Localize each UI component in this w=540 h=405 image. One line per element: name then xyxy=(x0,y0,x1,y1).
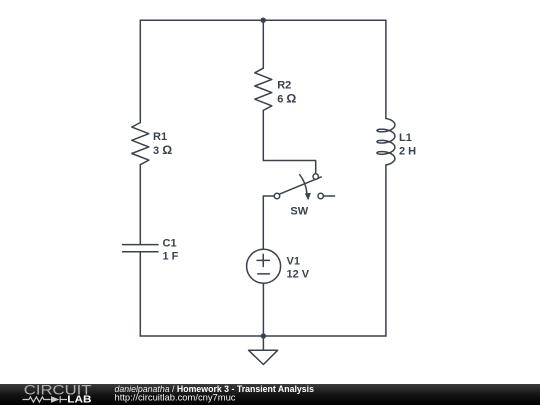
svg-text:12 V: 12 V xyxy=(287,269,310,281)
wire top-left xyxy=(140,19,263,21)
resistor R1 xyxy=(132,123,149,165)
resistor R2 xyxy=(255,68,272,110)
svg-text:LAB: LAB xyxy=(67,395,91,405)
svg-text:R1: R1 xyxy=(153,131,167,143)
svg-text:3 Ω: 3 Ω xyxy=(153,143,172,157)
wire switch to V1 xyxy=(263,196,274,249)
wire V1 to bottom xyxy=(262,283,264,336)
svg-text:R2: R2 xyxy=(277,80,291,92)
wire left upper xyxy=(139,20,141,122)
svg-text:6 Ω: 6 Ω xyxy=(277,91,296,105)
svg-text:1 F: 1 F xyxy=(163,251,179,263)
wire right upper xyxy=(385,20,387,118)
CircuitLab logo diode triangle xyxy=(51,396,60,403)
inductor L1 xyxy=(377,118,395,165)
svg-text:C1: C1 xyxy=(163,237,177,249)
svg-text:L1: L1 xyxy=(399,132,412,144)
ground xyxy=(249,336,278,365)
wire bottom-right xyxy=(263,335,386,337)
wire left middle xyxy=(139,165,141,245)
svg-text:http://circuitlab.com/cny7muc: http://circuitlab.com/cny7muc xyxy=(115,393,236,403)
voltage source V1 xyxy=(247,249,281,283)
switch SW xyxy=(274,174,334,201)
wire top-right xyxy=(263,19,386,21)
junction top xyxy=(261,18,266,23)
wire bottom-left xyxy=(140,335,263,337)
junction bottom xyxy=(261,333,266,338)
capacitor C1 xyxy=(123,245,158,252)
svg-text:2 H: 2 H xyxy=(399,146,416,158)
wire right lower xyxy=(385,165,387,336)
svg-text:V1: V1 xyxy=(287,256,300,268)
svg-text:SW: SW xyxy=(290,206,308,218)
wire center top xyxy=(262,20,264,68)
CircuitLab logo schematic glyph xyxy=(23,396,68,402)
wire R2 to switch xyxy=(263,110,315,173)
wire left lower xyxy=(139,252,141,336)
